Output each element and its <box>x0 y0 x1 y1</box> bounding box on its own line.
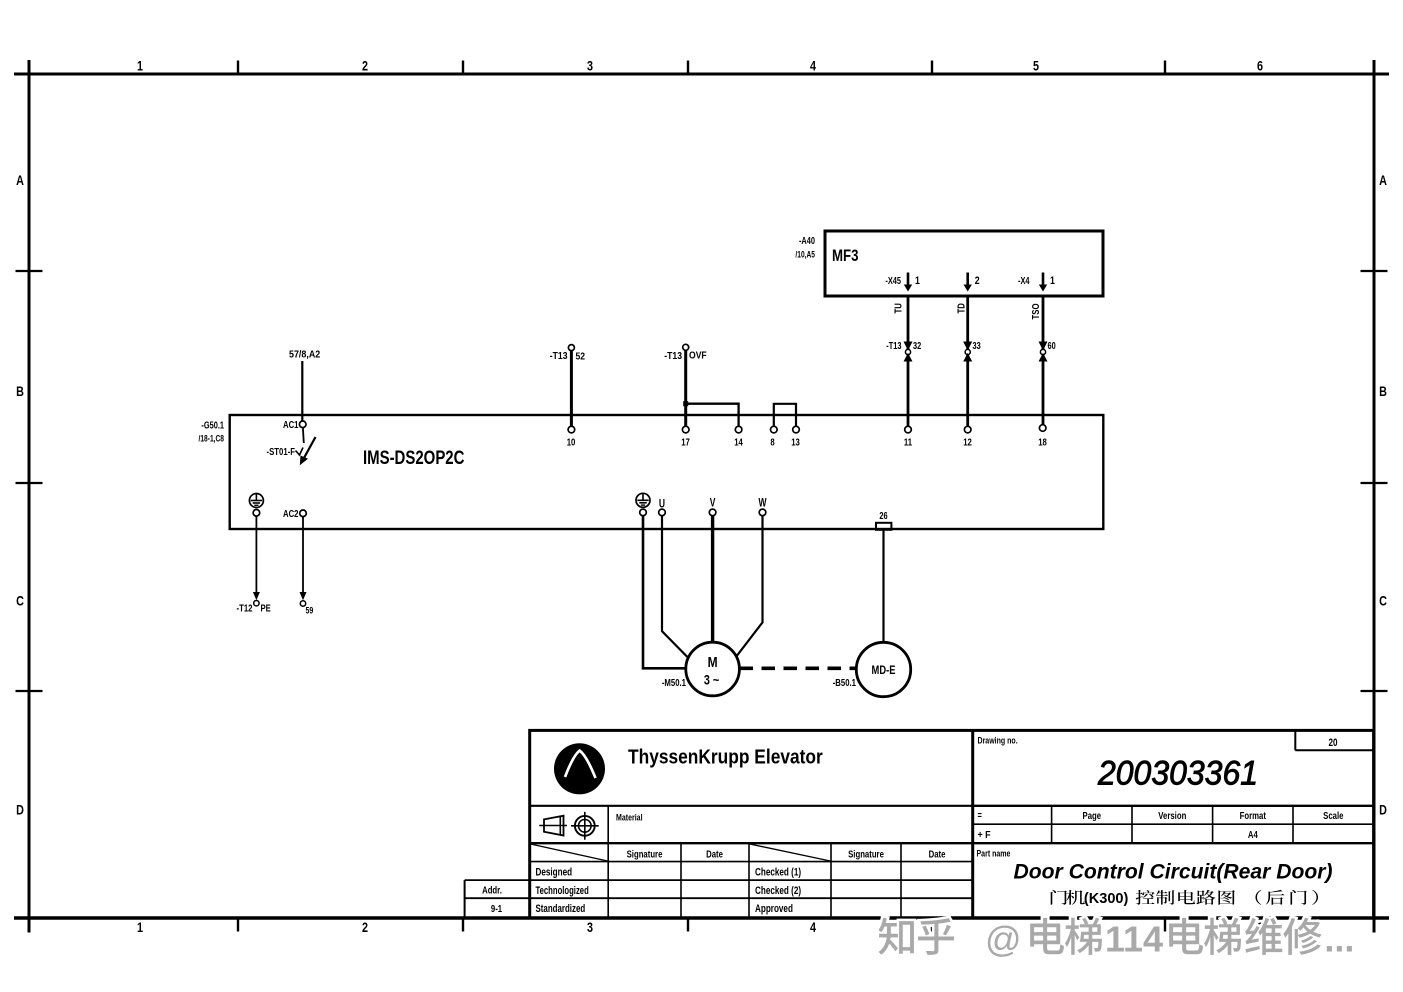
svg-text:60: 60 <box>1048 340 1056 351</box>
svg-text:Part name: Part name <box>977 847 1011 858</box>
svg-text:OVF: OVF <box>689 350 707 362</box>
svg-text:B: B <box>16 384 24 399</box>
svg-text:Drawing no.: Drawing no. <box>978 734 1018 745</box>
svg-text:14: 14 <box>734 436 743 447</box>
svg-text:Checked (2): Checked (2) <box>755 885 801 898</box>
svg-text:-T13: -T13 <box>664 350 682 362</box>
svg-text:-T13: -T13 <box>886 340 901 351</box>
svg-text:M: M <box>708 654 718 671</box>
svg-text:Signature: Signature <box>627 848 663 859</box>
svg-text:6: 6 <box>1257 58 1263 73</box>
svg-text:C: C <box>1379 593 1387 608</box>
svg-text:-B50.1: -B50.1 <box>833 677 856 688</box>
svg-text:8: 8 <box>770 436 774 447</box>
svg-text:13: 13 <box>791 436 800 447</box>
svg-text:1: 1 <box>1050 275 1055 287</box>
svg-text:TU: TU <box>893 303 904 313</box>
svg-text:200303361: 200303361 <box>1097 755 1258 793</box>
svg-text:/10,A5: /10,A5 <box>795 250 815 260</box>
svg-text:-ST01-F: -ST01-F <box>267 446 296 457</box>
svg-text:(K300): (K300) <box>1084 891 1129 907</box>
svg-text:3 ~: 3 ~ <box>704 672 719 687</box>
svg-text:Date: Date <box>929 848 946 859</box>
svg-text:A: A <box>16 173 24 188</box>
svg-text:Approved: Approved <box>755 903 793 916</box>
svg-text:2: 2 <box>362 920 368 935</box>
svg-text:A: A <box>1379 173 1387 188</box>
svg-text:Date: Date <box>706 848 723 859</box>
svg-text:...: ... <box>1324 919 1354 960</box>
svg-text:@: @ <box>985 919 1022 960</box>
svg-text:Checked (1): Checked (1) <box>755 866 801 879</box>
svg-text:2: 2 <box>975 275 980 287</box>
svg-text:MF3: MF3 <box>832 247 859 266</box>
svg-text:/18-1,C8: /18-1,C8 <box>198 434 224 444</box>
svg-text:ThyssenKrupp Elevator: ThyssenKrupp Elevator <box>628 745 823 767</box>
svg-text:PE: PE <box>261 602 271 613</box>
svg-text:Version: Version <box>1158 810 1186 821</box>
svg-text:MD-E: MD-E <box>872 664 896 677</box>
svg-text:TD: TD <box>956 303 967 314</box>
svg-text:V: V <box>710 497 716 510</box>
svg-text:Designed: Designed <box>536 866 573 879</box>
svg-text:57/8,A2: 57/8,A2 <box>289 349 321 361</box>
svg-text:114: 114 <box>1105 919 1163 960</box>
svg-text:9-1: 9-1 <box>491 903 502 914</box>
svg-text:W: W <box>758 497 766 510</box>
svg-text:59: 59 <box>306 604 314 615</box>
svg-text:5: 5 <box>1033 58 1039 73</box>
svg-text:1: 1 <box>137 920 143 935</box>
svg-text:33: 33 <box>973 340 981 351</box>
svg-text:Format: Format <box>1240 810 1266 821</box>
svg-text:Technologized: Technologized <box>536 885 589 898</box>
svg-text:20: 20 <box>1328 737 1337 750</box>
svg-text:3: 3 <box>587 58 593 73</box>
svg-text:3: 3 <box>587 920 593 935</box>
svg-text:10: 10 <box>567 436 576 447</box>
svg-text:Page: Page <box>1083 810 1102 821</box>
svg-text:AC2: AC2 <box>283 508 299 519</box>
svg-text:32: 32 <box>913 340 921 351</box>
svg-text:TSO: TSO <box>1030 303 1041 319</box>
svg-text:Standardized: Standardized <box>536 903 586 916</box>
svg-text:26: 26 <box>879 510 887 521</box>
svg-text:4: 4 <box>810 58 816 73</box>
svg-text:52: 52 <box>576 351 586 363</box>
svg-text:Door Control Circuit(Rear Door: Door Control Circuit(Rear Door) <box>1014 861 1333 884</box>
svg-text:Material: Material <box>616 811 643 822</box>
svg-text:11: 11 <box>904 436 912 447</box>
svg-text:-X45: -X45 <box>885 275 901 286</box>
svg-text:C: C <box>16 593 24 608</box>
svg-text:-G50.1: -G50.1 <box>201 419 224 430</box>
svg-text:17: 17 <box>681 436 690 447</box>
svg-text:-M50.1: -M50.1 <box>662 677 686 688</box>
svg-text:Addr.: Addr. <box>482 884 502 895</box>
svg-text:IMS-DS2OP2C: IMS-DS2OP2C <box>363 448 465 469</box>
svg-text:A4: A4 <box>1248 829 1259 840</box>
svg-text:=: = <box>978 809 982 820</box>
svg-text:-X4: -X4 <box>1018 275 1030 286</box>
svg-text:-T13: -T13 <box>550 350 568 362</box>
svg-text:D: D <box>1379 802 1387 817</box>
svg-text:-A40: -A40 <box>799 235 815 246</box>
svg-text:B: B <box>1379 384 1387 399</box>
svg-text:18: 18 <box>1038 436 1047 447</box>
svg-text:AC1: AC1 <box>283 419 299 430</box>
svg-text:D: D <box>16 802 24 817</box>
svg-text:-T12: -T12 <box>237 602 253 613</box>
svg-text:1: 1 <box>137 58 143 73</box>
svg-text:Signature: Signature <box>848 848 884 859</box>
svg-text:12: 12 <box>963 436 972 447</box>
svg-text:1: 1 <box>915 275 920 287</box>
svg-text:+ F: + F <box>978 829 991 841</box>
svg-text:2: 2 <box>362 58 368 73</box>
svg-text:Scale: Scale <box>1323 810 1343 821</box>
svg-text:4: 4 <box>810 920 816 935</box>
